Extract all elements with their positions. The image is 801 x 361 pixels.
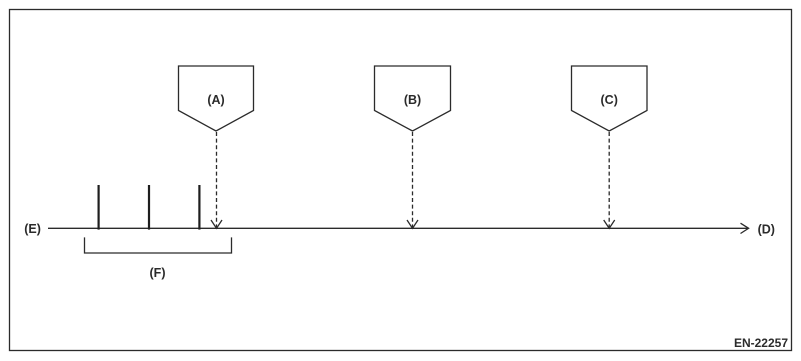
svg-text:(C): (C) xyxy=(601,93,618,107)
pentagon C xyxy=(572,66,648,131)
bracket F xyxy=(85,237,232,253)
tick mark 3 xyxy=(198,185,200,230)
svg-text:(B): (B) xyxy=(404,93,421,107)
svg-text:(E): (E) xyxy=(24,222,41,236)
pentagon B xyxy=(375,66,451,131)
axis arrowhead right xyxy=(741,223,749,233)
svg-text:(A): (A) xyxy=(207,93,224,107)
pentagon A xyxy=(179,66,254,131)
timeline axis xyxy=(48,227,749,229)
svg-text:(F): (F) xyxy=(150,266,166,280)
dashed arrow from C xyxy=(608,132,610,227)
svg-text:EN-22257: EN-22257 xyxy=(734,336,788,350)
tick mark 2 xyxy=(148,185,150,230)
tick mark 1 xyxy=(97,185,99,230)
svg-text:(D): (D) xyxy=(758,222,775,236)
dashed arrow from B xyxy=(412,132,414,227)
dashed arrow from A xyxy=(216,132,218,227)
